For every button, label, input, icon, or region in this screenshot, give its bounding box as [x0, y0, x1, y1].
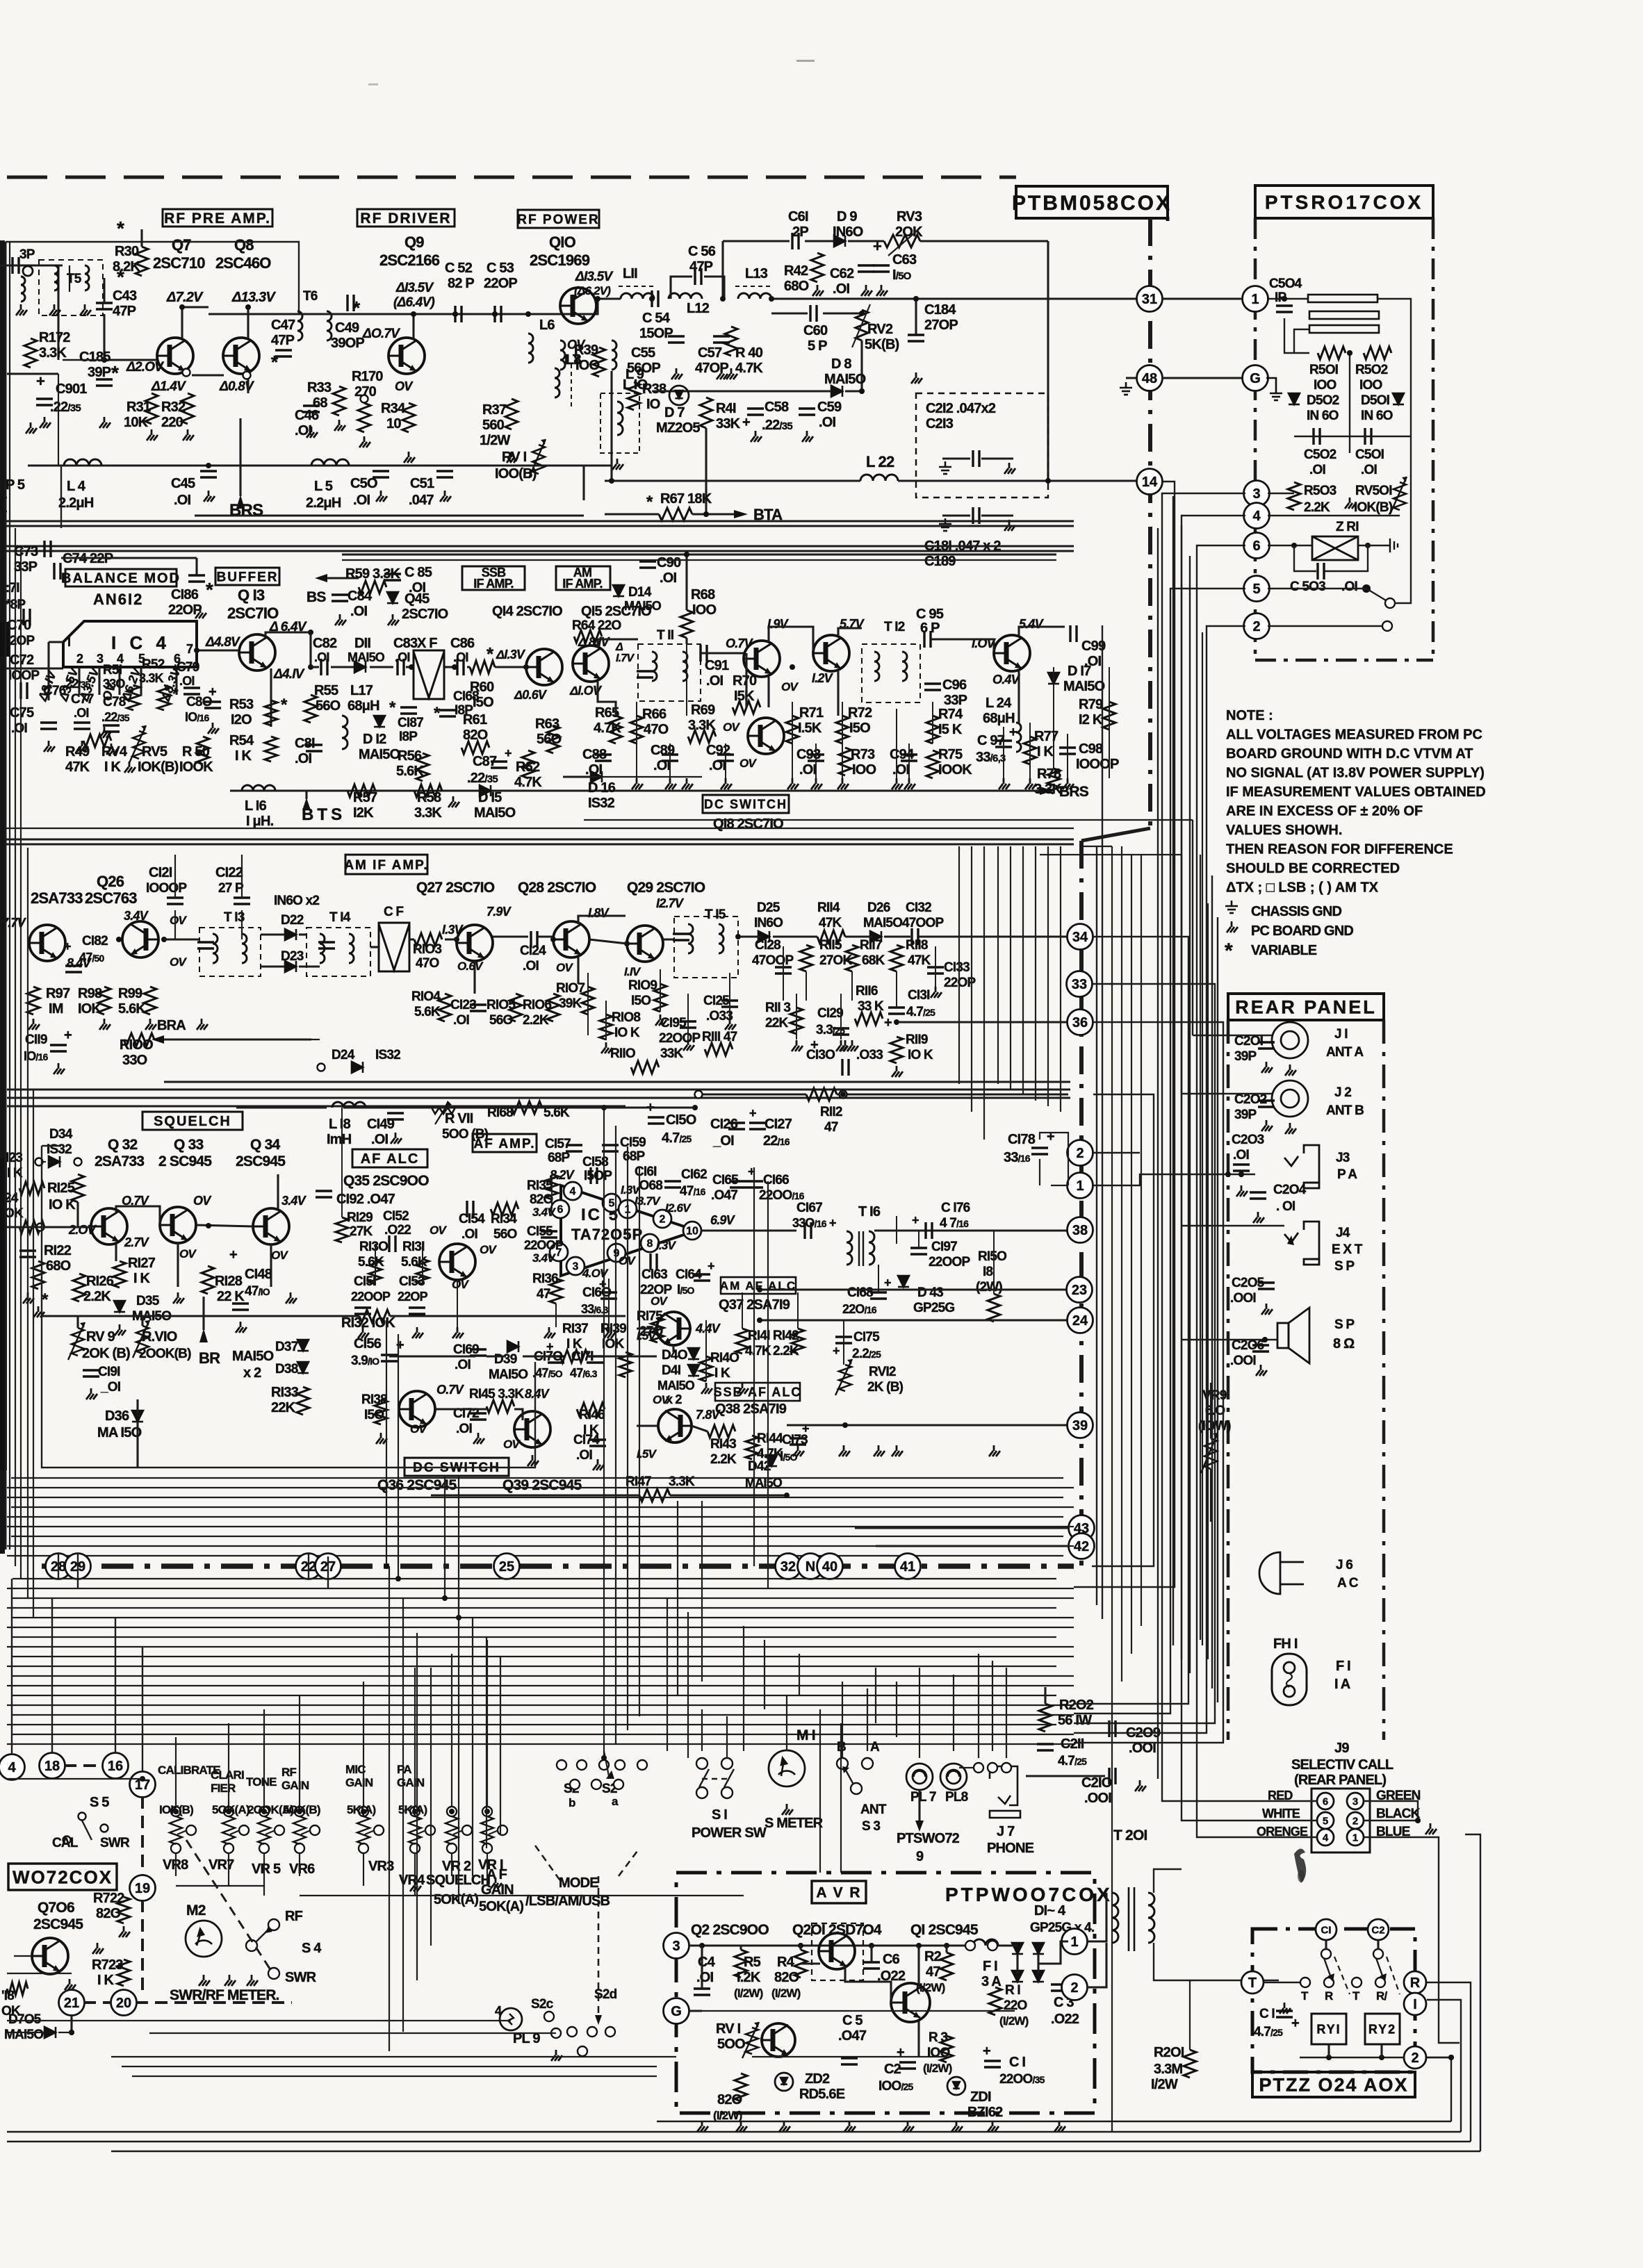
- svg-text:+: +: [897, 2045, 904, 2060]
- svg-text:OV: OV: [430, 1224, 447, 1237]
- right bus extra c: [1207, 903, 1209, 1659]
- pot VR8 body: [170, 1816, 182, 1844]
- svg-text:47: 47: [926, 1964, 940, 1980]
- resistor R123: [19, 1182, 44, 1194]
- svg-text:E X T: E X T: [1332, 1242, 1363, 1257]
- svg-text:3: 3: [1252, 486, 1260, 502]
- gnd C172: [473, 1433, 484, 1444]
- svg-text:CI3I: CI3I: [908, 988, 930, 1003]
- lamp PL9 glyph: [508, 2014, 514, 2025]
- cap C131: [888, 1008, 905, 1014]
- pot VR1 body: [481, 1816, 493, 1844]
- svg-text:R/: R/: [1376, 1989, 1387, 2003]
- wire row f: [467, 666, 470, 668]
- pot RV2 arrow: [852, 304, 870, 347]
- gnd C186: [195, 607, 206, 618]
- svg-text:33/16: 33/16: [1004, 1150, 1031, 1165]
- node left: [37, 1224, 44, 1231]
- IC4 pin1 stub: [49, 641, 63, 643]
- svg-text:RV I: RV I: [502, 450, 527, 465]
- svg-text:WHITE: WHITE: [1262, 1807, 1300, 1821]
- svg-text:OV: OV: [653, 1393, 670, 1406]
- wire T16 out: [874, 1229, 1068, 1231]
- gnd S4b: [247, 1975, 258, 1986]
- junction dot 55: [261, 1809, 267, 1814]
- svg-text:5.6K: 5.6K: [118, 1001, 146, 1017]
- pot VR1 arm: [489, 1830, 498, 1834]
- J9 pin 5: [1317, 1812, 1334, 1829]
- section SSB IF AMP small: [462, 566, 525, 590]
- resistor R132: [359, 1310, 390, 1322]
- svg-text:.OI: .OI: [523, 959, 539, 973]
- svg-text:6: 6: [557, 1204, 564, 1216]
- bottom wrap 2: [1427, 2000, 1461, 2132]
- transformer T11 dashed box: [638, 644, 701, 701]
- wire C56 loop b: [704, 277, 724, 299]
- svg-text:CI63: CI63: [641, 1267, 667, 1282]
- section AF ALC: [352, 1149, 427, 1167]
- connector 14: [1137, 469, 1163, 495]
- svg-text:I5O: I5O: [849, 721, 870, 736]
- wire sw5 up: [1410, 334, 1412, 589]
- cap C127: [749, 1123, 766, 1129]
- am rail d16: [563, 776, 702, 778]
- svg-text:+: +: [505, 746, 512, 760]
- bottom line 3: [7, 2141, 1471, 2142]
- svg-text:ΔI.3V: ΔI.3V: [496, 648, 526, 661]
- svg-text:R33: R33: [307, 380, 332, 395]
- cap C206: [1252, 1345, 1269, 1351]
- wire c503 loop b: [1325, 545, 1368, 571]
- svg-text:VR7: VR7: [209, 1857, 234, 1873]
- junction dot 28: [550, 937, 556, 942]
- svg-text:27 P: 27 P: [218, 881, 244, 896]
- trap wire 1: [1265, 298, 1308, 299]
- resistor R66: [630, 716, 643, 743]
- svg-text:2: 2: [1252, 619, 1260, 634]
- svg-text:RF PRE AMP.: RF PRE AMP.: [164, 211, 271, 227]
- resistor R41: [700, 397, 712, 428]
- cap C75: [40, 723, 57, 729]
- J9 pin 4: [1317, 1829, 1334, 1846]
- cap C186: [188, 575, 205, 582]
- cap C210: [1109, 1768, 1115, 1784]
- S2 contact m0: [570, 1780, 580, 1789]
- band frame 2b: [6, 550, 1074, 552]
- cap C84: [332, 595, 348, 601]
- ssb bottom rail: [230, 789, 1040, 791]
- svg-text:D26: D26: [867, 901, 890, 915]
- S5 c3: [63, 1836, 71, 1844]
- resistor R202: [1039, 1704, 1052, 1732]
- IC4 body: [63, 621, 197, 667]
- svg-text:33P: 33P: [14, 559, 38, 575]
- svg-text:RI43: RI43: [710, 1437, 736, 1452]
- svg-text::7I: :7I: [6, 581, 19, 595]
- svg-text:I2.7V: I2.7V: [656, 896, 685, 910]
- wire PL7 stem: [918, 1790, 920, 1821]
- bus wire b4: [13, 1617, 1074, 1618]
- bus feeder v3: [458, 1476, 459, 1618]
- T11 coil a: [652, 652, 657, 681]
- svg-text:PL 7: PL 7: [910, 1790, 936, 1805]
- svg-text:RII7: RII7: [860, 938, 882, 953]
- svg-text:CI22: CI22: [215, 865, 243, 880]
- cap C158: [591, 1167, 597, 1184]
- svg-text:CAL: CAL: [52, 1836, 79, 1850]
- junction zr1 a: [1291, 543, 1297, 548]
- L11 dash: [619, 286, 656, 287]
- resistor R3: [940, 2036, 953, 2062]
- svg-text:.OI: .OI: [1309, 463, 1325, 477]
- gnd q34: [286, 1292, 297, 1304]
- svg-text:T I4: T I4: [329, 910, 351, 925]
- svg-text:+: +: [884, 1276, 891, 1290]
- svg-text:SELECTIV CALL: SELECTIV CALL: [1291, 1757, 1393, 1773]
- svg-text:IOOP: IOOP: [8, 668, 40, 683]
- pot RV1: [529, 439, 546, 478]
- svg-text:IOOOP: IOOOP: [146, 881, 187, 896]
- S2d contact 1: [587, 2027, 597, 2037]
- wire left rail: [7, 372, 58, 375]
- svg-text:C901: C901: [56, 381, 87, 397]
- svg-text:D7O5: D7O5: [8, 2012, 42, 2027]
- svg-text:5K(B): 5K(B): [865, 337, 899, 352]
- relay RY1: [1311, 2014, 1346, 2044]
- svg-text:OV: OV: [651, 1295, 668, 1308]
- gnd C201: [1261, 1062, 1273, 1073]
- T5 coil b: [85, 265, 89, 290]
- connector 23: [1067, 1277, 1093, 1303]
- svg-text:MAI5O: MAI5O: [359, 747, 400, 762]
- am bottom rail2: [7, 1088, 1070, 1090]
- svg-text:+: +: [884, 1015, 892, 1030]
- bus feeder v9: [767, 1181, 769, 1588]
- gnd D35: [115, 1324, 126, 1336]
- pot RV3 body: [884, 235, 920, 247]
- svg-text:.OI: .OI: [833, 281, 850, 297]
- resistor R59: [359, 581, 386, 593]
- wire C61 row d: [920, 240, 1048, 242]
- conn feeder 2: [115, 1618, 116, 1754]
- diode D34: [49, 1156, 60, 1167]
- wire T201 bot: [1086, 1943, 1106, 1987]
- bus wire b5: [7, 1627, 1074, 1628]
- junction dot 62: [1239, 1172, 1244, 1177]
- svg-text:CI56: CI56: [354, 1336, 382, 1351]
- svg-text:R55: R55: [314, 683, 338, 698]
- svg-text:39P: 39P: [88, 365, 111, 380]
- svg-text:OV: OV: [723, 721, 740, 734]
- cap C63: [873, 265, 890, 272]
- transistor Q33: [160, 1207, 196, 1243]
- svg-text:T I6: T I6: [858, 1204, 881, 1219]
- resistor R79: [1103, 702, 1115, 730]
- svg-text:MAI5O: MAI5O: [232, 1349, 274, 1364]
- pot feeder 1: [228, 1723, 229, 1807]
- gnd stub ssb 2: [682, 778, 693, 789]
- T12 coil b: [902, 652, 907, 681]
- svg-text:IOO: IOO: [852, 762, 876, 778]
- cap C154: [467, 1201, 473, 1217]
- coil L18: [332, 1102, 366, 1108]
- wire am row d: [884, 935, 910, 937]
- IC4 pin7 wire: [197, 649, 239, 651]
- IC5 pin 2: [653, 1210, 671, 1228]
- J7 c3: [1002, 1763, 1011, 1773]
- wire T row: [1264, 1982, 1300, 1983]
- junction dot 58: [412, 1809, 418, 1814]
- junction dot 39: [384, 1563, 389, 1569]
- stub ssb 10: [1003, 727, 1004, 778]
- svg-text:C184: C184: [924, 302, 956, 318]
- svg-text:I A: I A: [1334, 1677, 1350, 1692]
- svg-text:(2W): (2W): [976, 1280, 1002, 1295]
- right bus v0: [1111, 846, 1113, 2132]
- svg-text:RI44: RI44: [757, 1431, 783, 1446]
- svg-text:47K: 47K: [819, 916, 842, 930]
- svg-text:MZ2O5: MZ2O5: [656, 420, 700, 436]
- junction dot 30: [735, 934, 741, 939]
- svg-text:RII6: RII6: [856, 984, 878, 999]
- svg-text:CI68: CI68: [453, 689, 479, 704]
- resistor R38: [628, 382, 640, 410]
- resistor R31: [145, 393, 158, 424]
- S4 SWR: [268, 1968, 279, 1979]
- coil L16: [242, 785, 275, 791]
- PTZZ R: [1404, 1971, 1426, 1994]
- svg-text:C 52: C 52: [445, 261, 473, 276]
- wire avr low: [752, 2056, 947, 2057]
- junction zr1 b: [1365, 543, 1371, 548]
- svg-text:R70: R70: [733, 673, 757, 689]
- resistor R201: [1184, 2050, 1196, 2078]
- cap C74: [54, 563, 60, 580]
- resistor R67: [659, 508, 692, 520]
- right bus extra a: [1200, 855, 1201, 1640]
- svg-text:39K: 39K: [559, 996, 582, 1011]
- lamp PL9: [500, 2008, 522, 2030]
- cap C129: [833, 1028, 849, 1035]
- junction dot 66: [1347, 350, 1352, 356]
- gnd am3: [683, 1039, 694, 1051]
- cap C43: [96, 303, 113, 309]
- svg-text:+: +: [209, 684, 216, 700]
- cap C157: [566, 1145, 582, 1151]
- svg-text:IN 6O: IN 6O: [1361, 409, 1393, 423]
- svg-text:3.4V: 3.4V: [532, 1251, 556, 1265]
- bus wire a5: [7, 1526, 1074, 1527]
- svg-text:RI28: RI28: [215, 1274, 243, 1289]
- svg-text:IO: IO: [646, 397, 660, 412]
- svg-text:I2.6V: I2.6V: [665, 1201, 692, 1215]
- bus wire b8: [13, 1656, 1074, 1657]
- svg-text:L8: L8: [566, 352, 581, 368]
- resistor R136: [550, 1279, 562, 1304]
- connector 2 mid: [1068, 1140, 1093, 1166]
- svg-text:ΔO.7V: ΔO.7V: [362, 327, 400, 341]
- connector 3 avr: [664, 1933, 689, 1959]
- transistor Q27: [457, 925, 493, 961]
- stub am 10: [796, 994, 797, 1039]
- S2 contact m1: [591, 1780, 601, 1789]
- coil L4: [64, 459, 101, 466]
- svg-text:.OI: .OI: [295, 423, 312, 438]
- svg-text:MA I5O: MA I5O: [97, 1425, 142, 1440]
- arrow BTA: [734, 510, 748, 518]
- svg-text:D5OI: D5OI: [1361, 393, 1390, 408]
- svg-text:47/50: 47/50: [79, 951, 104, 964]
- wire 14 rail a: [605, 479, 860, 482]
- connector 41 bus: [895, 1554, 921, 1579]
- svg-text:I: I: [67, 635, 70, 649]
- wire 31 rail: [771, 297, 1138, 299]
- svg-text:22/16: 22/16: [763, 1133, 790, 1149]
- mid bus v2: [1022, 846, 1024, 1095]
- gnd C59: [802, 431, 813, 442]
- svg-text:3.4V: 3.4V: [124, 909, 149, 923]
- resistor R107: [582, 987, 594, 1014]
- bottom line 4: [111, 2151, 1480, 2152]
- chassis gnd 48: [1120, 382, 1132, 395]
- svg-text:OV: OV: [567, 338, 586, 352]
- svg-text:3: 3: [1352, 1795, 1358, 1807]
- cap C160: [600, 1292, 617, 1299]
- gnd stub am 2: [840, 1040, 851, 1051]
- svg-text:R170: R170: [352, 369, 383, 384]
- gnd stub ssb 6: [837, 778, 849, 789]
- svg-text:TONE: TONE: [246, 1775, 277, 1789]
- svg-text:R: R: [1410, 1975, 1421, 1991]
- lamp PL8 inner: [947, 1770, 961, 1784]
- gnd C202: [1261, 1120, 1273, 1131]
- pot VR2 body: [446, 1816, 458, 1844]
- P5 arc: [0, 498, 7, 511]
- IC5 pin 3: [566, 1257, 585, 1275]
- diode D38: [297, 1362, 309, 1373]
- S4 common: [246, 1940, 257, 1951]
- svg-text:D24: D24: [332, 1048, 355, 1062]
- svg-text:C F: C F: [384, 905, 403, 919]
- cap C79: [183, 688, 200, 694]
- gnd am5: [892, 1066, 903, 1077]
- wire J9 black: [1364, 1820, 1418, 1821]
- svg-text:R54: R54: [229, 733, 254, 748]
- rail y1230: [1040, 854, 1182, 855]
- svg-text:C57: C57: [698, 345, 722, 361]
- pot feeder 3: [299, 1695, 300, 1807]
- wire c503 loop a: [1294, 545, 1316, 571]
- coil L8: [560, 340, 565, 370]
- svg-text:x 2: x 2: [243, 1365, 261, 1381]
- diode D15: [480, 785, 491, 796]
- svg-text:D 43: D 43: [917, 1285, 943, 1300]
- relay RY2: [1365, 2014, 1400, 2044]
- svg-text:RI22: RI22: [44, 1243, 72, 1258]
- svg-text:.OI: .OI: [696, 1970, 714, 1985]
- svg-text:ANT A: ANT A: [1326, 1045, 1364, 1060]
- svg-text:RV3: RV3: [897, 209, 922, 224]
- pot RV12: [835, 1359, 852, 1395]
- svg-text:ANT B: ANT B: [1326, 1103, 1364, 1118]
- svg-text:22OOP: 22OOP: [524, 1238, 564, 1252]
- resistor R116: [855, 1012, 883, 1025]
- svg-text:D 8: D 8: [831, 356, 851, 372]
- junction ry1: [1326, 2055, 1332, 2060]
- bus wire b16: [13, 1734, 1074, 1735]
- gnd stub ssb 1: [665, 778, 676, 789]
- svg-text:T: T: [1301, 1989, 1309, 2003]
- pot RV1 avr: [742, 2022, 759, 2058]
- resistor R97: [27, 987, 40, 1014]
- svg-text:CI24: CI24: [520, 944, 546, 958]
- resistor R109: [654, 984, 667, 1012]
- node Q8 emitter: [243, 372, 251, 379]
- resistor R118: [890, 945, 903, 971]
- svg-text:J 2: J 2: [1334, 1085, 1351, 1100]
- cap T11: [637, 671, 653, 677]
- junction dot 43: [601, 1755, 607, 1761]
- stub am 1: [605, 1001, 607, 1040]
- bus wire a2: [7, 1497, 1063, 1498]
- sw2 arrow: [1380, 1973, 1387, 1982]
- cap C90: [639, 561, 656, 568]
- wire ry2 stem: [1380, 2044, 1382, 2057]
- connector 1 mid: [1068, 1173, 1093, 1199]
- svg-text:C4: C4: [698, 1955, 716, 1970]
- wire 6 link: [1268, 545, 1312, 546]
- band sep ssb b: [6, 844, 1074, 846]
- PTZZ I: [1404, 1993, 1426, 2015]
- svg-text:.OI: .OI: [453, 1013, 469, 1028]
- svg-text:D I2: D I2: [363, 732, 386, 747]
- svg-text:RI47: RI47: [626, 1474, 651, 1489]
- junction ry2: [1379, 2055, 1384, 2060]
- pot VR3 body: [357, 1816, 370, 1844]
- diode D16: [591, 771, 602, 782]
- svg-text:S P: S P: [1334, 1259, 1355, 1274]
- gnd stub ssb 7: [892, 778, 903, 789]
- arrow BRS ssb: [1040, 787, 1054, 795]
- junction dot 48: [916, 1943, 922, 1948]
- svg-text:22OP: 22OP: [398, 1290, 428, 1304]
- svg-text:Δ4.IV: Δ4.IV: [273, 667, 305, 682]
- svg-text:(I/2W): (I/2W): [923, 2062, 952, 2075]
- svg-text:R42: R42: [784, 263, 808, 279]
- diode D17: [1048, 673, 1059, 684]
- svg-text:+: +: [396, 1338, 404, 1353]
- svg-text:C2IO: C2IO: [1081, 1775, 1112, 1791]
- svg-text:_OI: _OI: [100, 1380, 121, 1395]
- wire 5 link: [1268, 588, 1366, 589]
- svg-text:47/IO: 47/IO: [245, 1284, 270, 1299]
- svg-text:22K: 22K: [765, 1016, 789, 1030]
- svg-text:5OK(A): 5OK(A): [434, 1892, 478, 1907]
- cap C95: [924, 631, 931, 648]
- left frame 2: [60, 466, 62, 528]
- svg-text:33/6,3: 33/6,3: [976, 750, 1006, 765]
- svg-text:3.3K: 3.3K: [688, 718, 716, 733]
- resistor R820: [735, 2073, 747, 2101]
- jack J1 outer: [1272, 1022, 1308, 1058]
- connector 28 bus: [46, 1554, 72, 1579]
- cap C165: [730, 1181, 746, 1188]
- svg-text:IF AMP.: IF AMP.: [473, 577, 513, 591]
- sw1 dash: [1334, 1957, 1350, 1994]
- svg-text:3.3K: 3.3K: [414, 805, 442, 821]
- svg-text:2: 2: [1070, 1980, 1078, 1996]
- svg-text:3P: 3P: [19, 247, 35, 262]
